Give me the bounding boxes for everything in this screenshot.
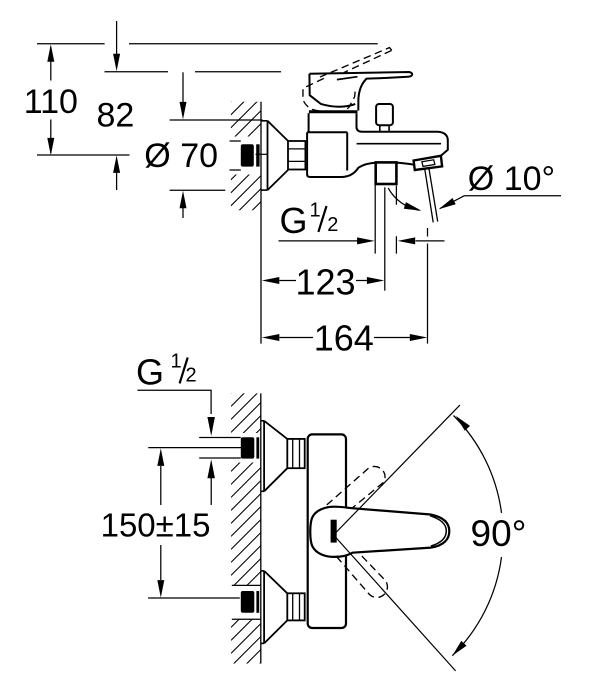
svg-text:2: 2 [186,365,197,387]
svg-text:G: G [280,200,308,241]
svg-text:Ø 70: Ø 70 [144,137,218,175]
svg-text:G: G [136,351,164,392]
svg-text:Ø 10°: Ø 10° [468,160,555,198]
svg-text:1: 1 [310,200,321,222]
svg-text:90°: 90° [471,513,527,554]
svg-text:110: 110 [24,83,78,121]
svg-text:164: 164 [314,317,374,358]
svg-text:1: 1 [171,351,182,373]
svg-text:150±15: 150±15 [101,506,211,543]
svg-text:2: 2 [327,214,338,236]
svg-text:82: 82 [96,97,134,135]
svg-text:123: 123 [295,262,355,303]
